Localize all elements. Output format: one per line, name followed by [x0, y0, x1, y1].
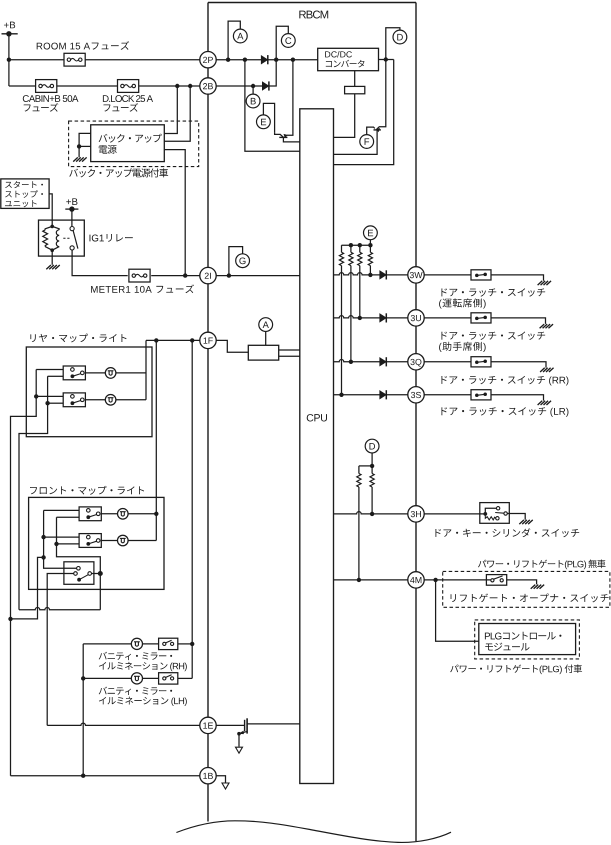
diagram continuation wave	[176, 821, 451, 843]
label liftgate opener switch	[451, 593, 609, 602]
dashed option box: without power liftgate	[443, 571, 610, 607]
wire: pin 2P row to DC/DC converter	[208, 59, 261, 61]
wire: latch switch to ground	[491, 275, 544, 281]
wire: row 4M from CPU	[334, 579, 417, 581]
wire: pin 3U to door latch switch	[416, 317, 471, 319]
connector pin 3H	[408, 506, 424, 522]
wire: row 3W from CPU (hops)	[334, 273, 380, 275]
wire: backup power ground leads	[79, 133, 91, 157]
label vanity RH	[99, 652, 172, 660]
connector pin 2P	[200, 52, 216, 68]
wire: 4M branch to PLG control module	[436, 580, 479, 641]
connector pin 3U	[408, 310, 424, 326]
dashed option box: with power liftgate	[475, 620, 580, 659]
wire: pin 2I to CPU	[208, 275, 300, 277]
ground (3S latch)	[538, 401, 543, 405]
start-stop unit box	[1, 179, 49, 209]
wire: E resistor tie bar	[342, 244, 371, 246]
front map light box	[29, 497, 164, 589]
label without PLG	[478, 559, 606, 569]
wire: front sw2 leads	[101, 540, 117, 542]
resistor R-3W pull-up	[369, 245, 371, 252]
ground (3W latch)	[538, 281, 543, 285]
fuse D.LOCK 25A	[118, 80, 139, 93]
wire: DC/DC output down to CPU	[334, 60, 394, 165]
wire: 1B row	[11, 775, 209, 777]
ground (backup power)	[73, 157, 78, 161]
label door latch switch (driver)	[441, 288, 545, 296]
switch front map main (door sw)	[64, 562, 94, 585]
switch door latch RR	[471, 357, 491, 367]
wire: relay switch to METER fuse to pin 2I	[72, 250, 128, 276]
resistor R-3H pull-up	[371, 466, 373, 474]
ground (3U latch)	[540, 324, 545, 328]
battery terminal +B (IG1 relay)	[66, 198, 77, 205]
switch rear map 2	[63, 393, 85, 407]
wire: rear bottom contacts tie	[19, 376, 48, 610]
label door latch switch (RR)	[441, 376, 568, 386]
switch front map 1	[79, 507, 101, 521]
diode D-2P	[261, 56, 268, 64]
resistor R1 (block)	[345, 86, 365, 93]
label door latch switch (LR)	[441, 407, 568, 417]
node B circle with stub	[252, 86, 254, 95]
wire: pin 4M to liftgate opener switch	[416, 579, 492, 581]
wire: backup power output to METER fuse row	[164, 150, 185, 276]
node E circle with hook	[257, 115, 271, 129]
wire: pin 3S to door latch switch	[416, 394, 471, 396]
switch front map 2	[79, 534, 101, 548]
wire: 2P row branch to CPU	[245, 60, 300, 152]
wire: 1B to ground	[208, 776, 226, 783]
wire: resistor R1 to CPU	[334, 94, 355, 138]
wire: 1F feed to front lamps	[155, 340, 157, 540]
switch door latch passenger side	[471, 313, 491, 323]
wire: row 3S from CPU	[334, 394, 380, 396]
wire: main switch mid contact to 1E	[47, 574, 73, 726]
wire: front bottom contacts tie	[57, 517, 101, 573]
ground (IG1 relay coil)	[46, 265, 51, 269]
connector pin 1B	[200, 768, 216, 784]
switch door latch LR	[471, 390, 491, 400]
ground (3Q latch)	[540, 368, 545, 372]
wire: DC/DC output row	[379, 59, 394, 61]
wire: DC/DC bottom to resistor R1	[354, 71, 356, 87]
wire: diode to pin 3Q	[386, 361, 416, 363]
wire: 2B row to backup power input 1	[164, 86, 177, 134]
label front map light	[30, 486, 144, 495]
switch liftgate opener	[486, 575, 506, 586]
fuse METER1 10A	[129, 269, 150, 282]
wire: diode to pin 3S	[386, 394, 416, 396]
connector pin 1E	[200, 717, 216, 733]
wire: rear top contacts tie	[11, 370, 37, 776]
label vanity LH	[99, 687, 172, 695]
node C circle	[281, 34, 295, 48]
lamp vanity RH	[131, 638, 142, 649]
lamp front map RH	[118, 509, 129, 520]
lamp rear map LH	[105, 395, 116, 406]
wire: row 3U from CPU (hops)	[334, 316, 380, 318]
resistor R-3U pull-up	[359, 245, 361, 252]
wire: resistor block to CPU (2 lines)	[279, 349, 300, 351]
node E2 circle with stub	[364, 226, 378, 240]
resistor R-4M pull-up	[358, 466, 360, 474]
wire: latch switch to ground (3U)	[491, 318, 546, 324]
node A circle	[233, 29, 247, 43]
node D hook	[386, 28, 400, 60]
rear map light box	[26, 347, 152, 437]
node D2 circle with stub	[365, 439, 379, 453]
wire: 1E row (hop over vanity common)	[47, 723, 208, 725]
wire: pin 3Q to door latch switch	[416, 361, 471, 363]
label with PLG	[450, 664, 582, 674]
diode D-3W	[380, 271, 387, 279]
wire: diode to pin 3W	[386, 274, 416, 276]
wire: relay coil to ground	[51, 250, 53, 265]
RBCM label	[299, 11, 328, 19]
connector pin 3Q	[408, 354, 424, 370]
backup power supply unit box	[91, 125, 165, 162]
connector pin 1F	[200, 332, 216, 348]
wire: row 3H from CPU (hop)	[334, 512, 417, 514]
wire: 2B row to backup power input 2	[164, 86, 190, 141]
wire: vanity common to 1B row	[82, 644, 84, 776]
wire: diode to pin 3U	[386, 317, 416, 319]
label door key cylinder switch	[435, 528, 579, 537]
ground (key cylinder)	[519, 520, 524, 524]
connector pin 3S	[408, 387, 424, 403]
label rear map light	[30, 334, 126, 343]
wire: bottom tie run (hops)	[19, 608, 100, 610]
switch door key cylinder	[480, 503, 510, 524]
wire: +B vertical feed	[8, 34, 10, 86]
wire: main switch output	[92, 573, 101, 575]
wire: pin 2B row	[208, 85, 262, 87]
wire: vanity RH leads	[83, 643, 131, 645]
connector pin 2I	[200, 267, 216, 283]
connector pin 2B	[200, 78, 216, 94]
wire: latch switch to ground (3Q)	[491, 362, 546, 368]
wire: pin 1F to resistor block	[208, 340, 248, 352]
relay IG1 box	[39, 220, 85, 256]
node A hook (2P row)	[228, 21, 240, 60]
node G hook	[229, 247, 243, 276]
wire: key cylinder switch to ground	[507, 514, 525, 520]
diode D-3S	[380, 391, 387, 399]
label: backup power equipped car	[69, 168, 168, 177]
node C hook	[276, 26, 288, 59]
diode D-2B	[262, 82, 269, 90]
label IG1 relay	[90, 234, 133, 242]
connector pin 4M	[408, 572, 424, 588]
wire: start-stop unit to IG1 relay coil	[49, 194, 52, 227]
wire: +B row to CABIN fuse, D.LOCK fuse, pin 2B	[9, 85, 36, 87]
wire: opener switch to ground	[507, 580, 537, 585]
switch door latch driver side	[471, 270, 491, 280]
wire: +B to ROOM fuse to pin 2P	[9, 59, 64, 61]
ground (liftgate opener)	[531, 585, 536, 589]
wire: node E hook to transistor Q1	[263, 103, 274, 132]
wire: branch to 1B feed	[11, 557, 44, 619]
switch rear map 1	[63, 366, 85, 380]
PLG control module box	[479, 624, 576, 655]
wire: pin 1F row to map lights	[146, 339, 208, 341]
wire: row 3Q from CPU (hops)	[334, 360, 380, 362]
lamp rear map RH	[105, 368, 116, 379]
diode D-3Q	[380, 358, 387, 366]
CPU block U-CPU	[300, 109, 334, 784]
transistor Q2 with node F	[377, 60, 386, 130]
node G circle	[236, 254, 250, 268]
ground (1B, triangle)	[222, 783, 229, 789]
connector pin 3W	[408, 267, 424, 283]
ground (1E FET, triangle)	[236, 747, 243, 753]
resistor R-3Q pull-up	[350, 245, 352, 252]
wire: rear sw1 leads	[85, 372, 105, 374]
wire: vanity LH leads	[83, 677, 131, 679]
wire: 2B diode up to 2P row	[269, 60, 276, 86]
wire: pin 3W to door latch switch	[416, 274, 471, 276]
resistor block R-1F	[248, 345, 278, 360]
transistor Q3 (1E driver FET)	[208, 724, 245, 726]
relay IG1 coil	[50, 225, 54, 229]
dashed option box: backup power equipped cars	[69, 121, 199, 167]
battery terminal +B (top left)	[4, 22, 15, 29]
relay IG1 switch	[71, 209, 73, 226]
switch vanity RH	[159, 638, 178, 649]
wire: 1F feed down to rear lamps	[145, 340, 147, 399]
DC/DC converter box	[318, 48, 379, 70]
wire: front sw1 leads	[101, 513, 117, 515]
wire: front top contacts tie	[44, 510, 77, 568]
RBCM module box border (top, left, right edges)	[208, 2, 416, 4]
lamp vanity LH	[131, 673, 142, 684]
wire: pin 3H to key cylinder switch	[416, 513, 485, 515]
wire: D resistor tie bar	[359, 465, 372, 467]
label door latch switch (passenger)	[441, 332, 545, 340]
fuse ROOM 15A	[64, 53, 85, 66]
node D circle	[393, 30, 407, 44]
transistor Q1 (backup power switch)	[275, 133, 284, 137]
wire: latch switch to ground (3S)	[491, 395, 544, 401]
node F circle	[360, 135, 374, 149]
switch vanity LH	[159, 673, 178, 684]
wire: 1F feed to vanity lamps	[191, 340, 193, 678]
resistor R-3S pull-up	[341, 245, 343, 252]
diode D-3U	[380, 314, 387, 322]
fuse CABIN+B 50A	[36, 80, 57, 93]
wire: rear sw2 leads	[85, 399, 105, 401]
node A2 circle with stub	[265, 332, 267, 346]
lamp front map LH	[118, 535, 129, 546]
